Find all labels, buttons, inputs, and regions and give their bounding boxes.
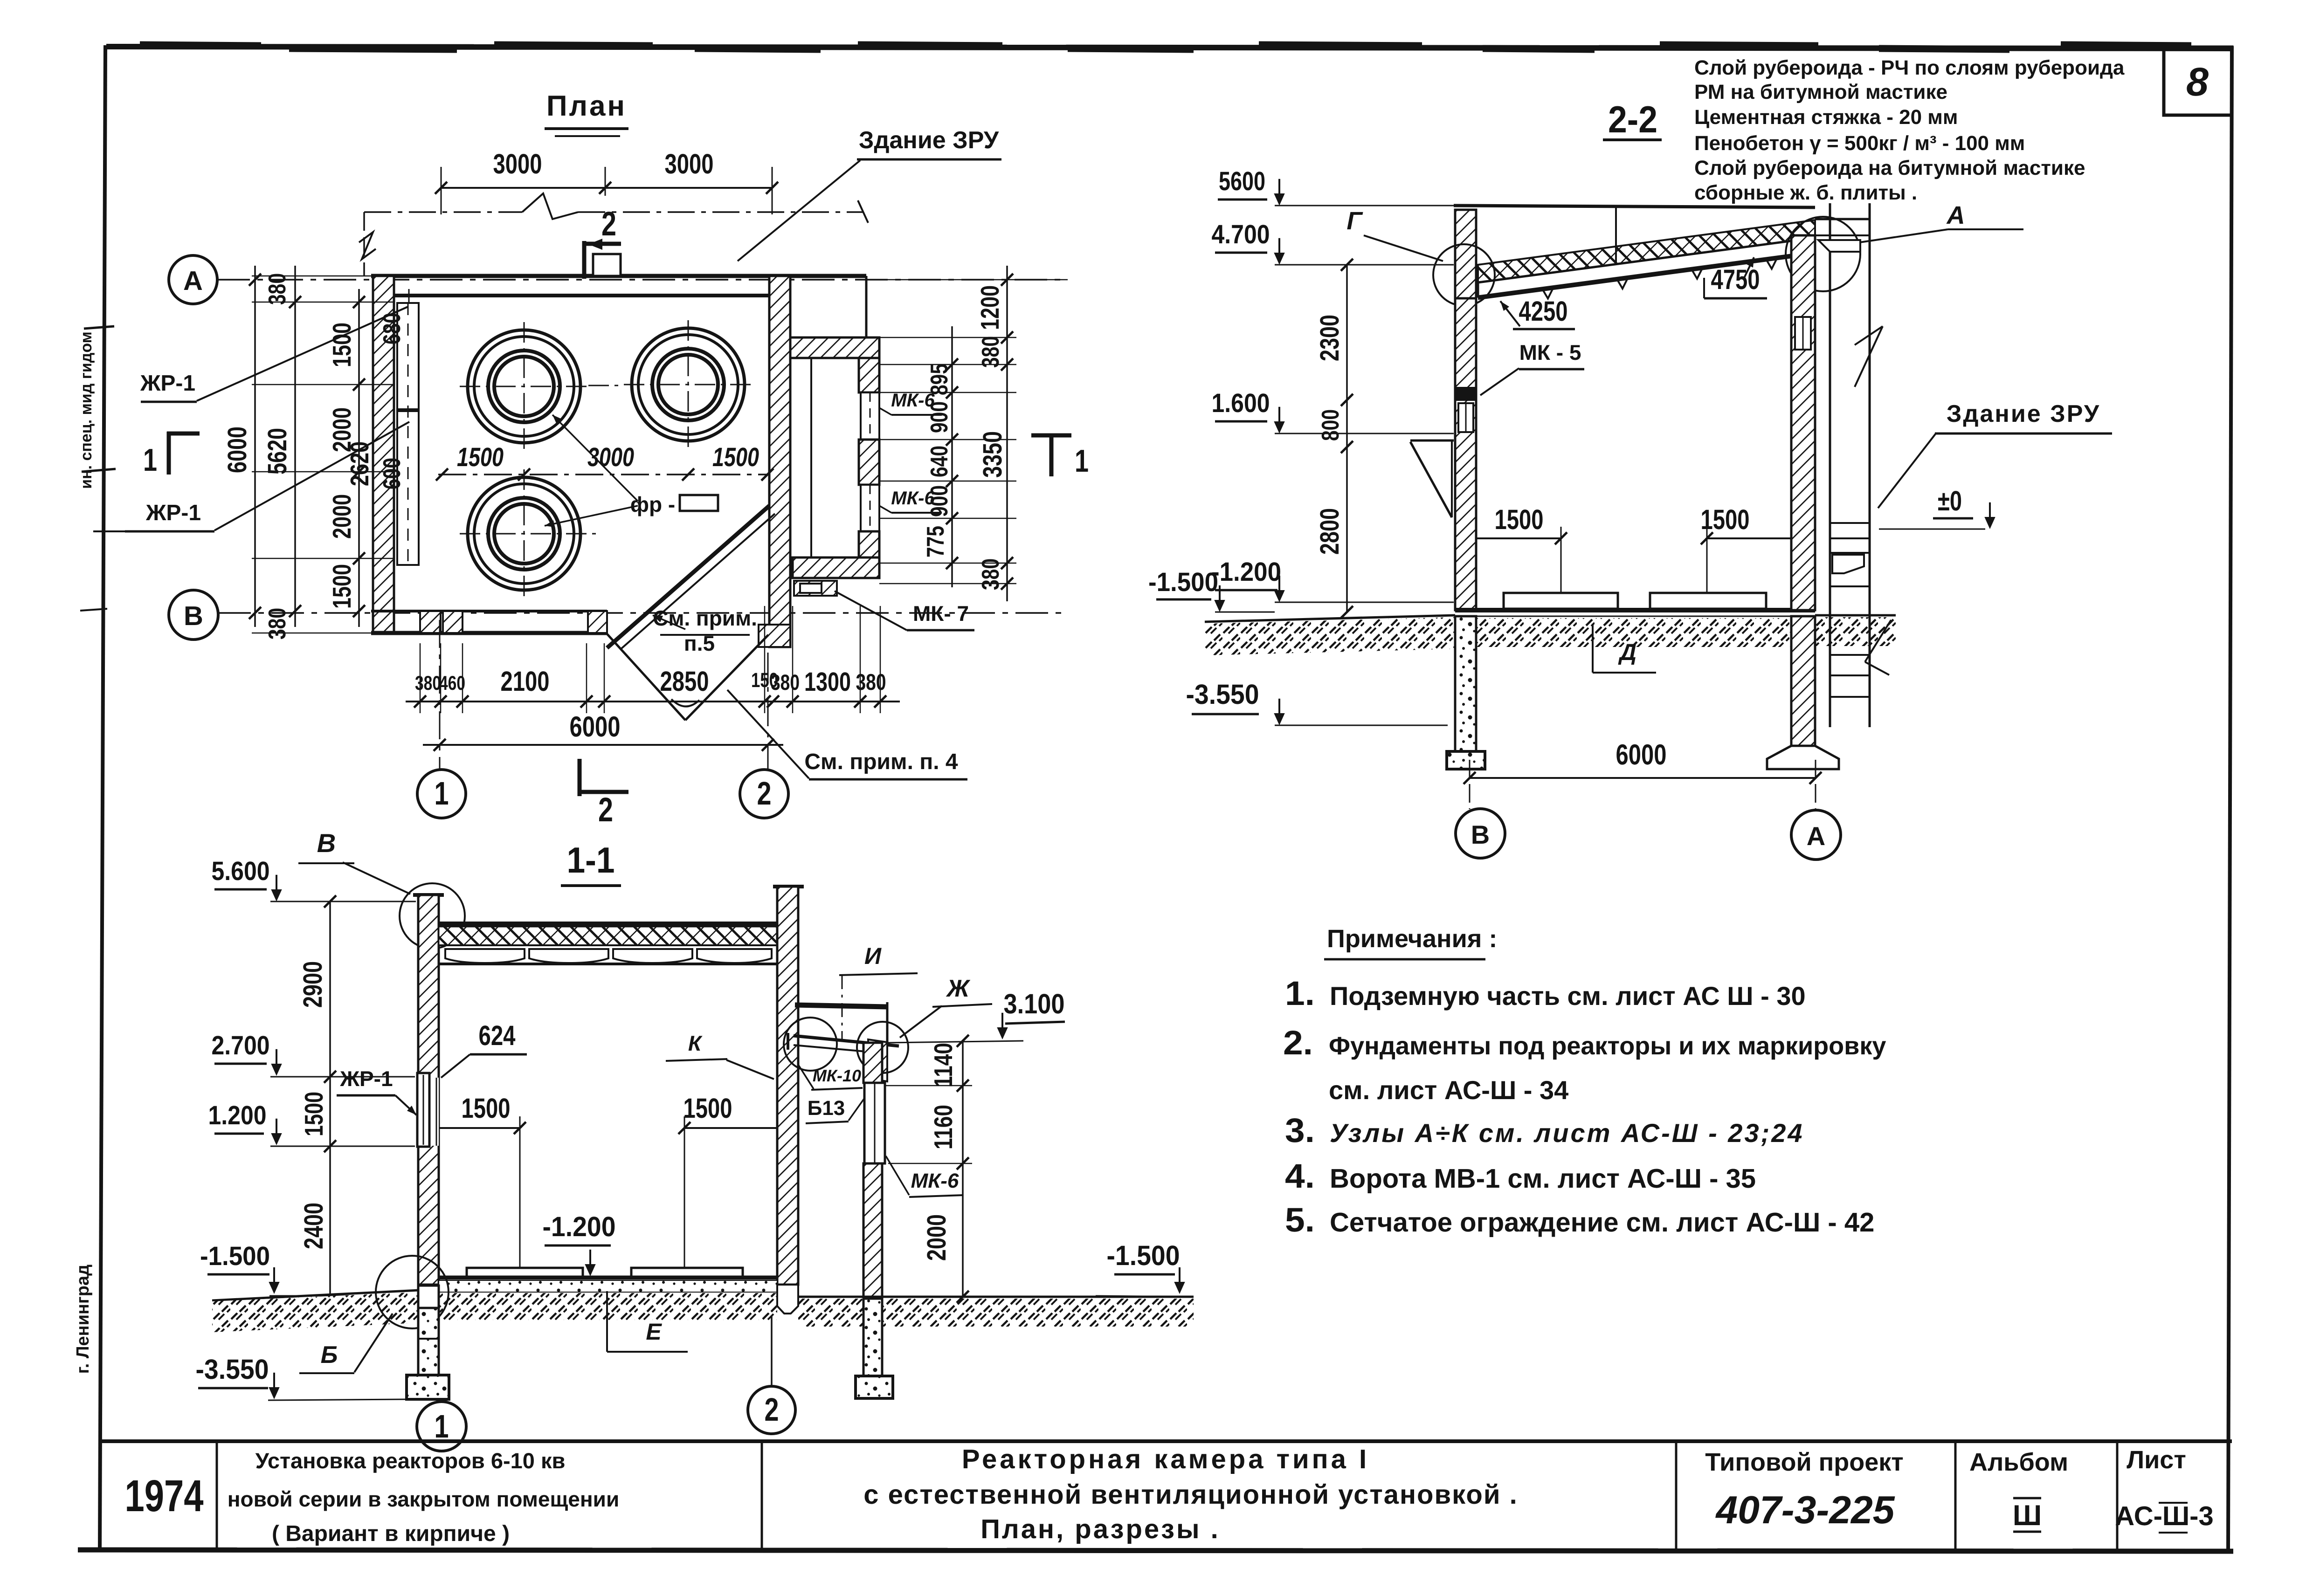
annex right wall lower [859, 531, 879, 557]
svg-text:МК- 7: МК- 7 [913, 601, 969, 626]
ground right (1-1) [798, 1296, 1194, 1298]
floor slab 2-2 [1455, 608, 1815, 612]
svg-text:РМ на битумной мастике: РМ на битумной мастике [1694, 81, 1947, 103]
svg-text:План: План [546, 90, 627, 122]
reactor R2 [632, 328, 745, 441]
svg-text:1.600: 1.600 [1212, 388, 1270, 418]
svg-text:624: 624 [479, 1020, 516, 1051]
section mark 2 (top) [582, 241, 587, 279]
building top wall [371, 274, 866, 278]
svg-text:Примечания :: Примечания : [1327, 925, 1497, 953]
axis circle 2 (plan) [740, 770, 788, 818]
svg-text:АС-Ш-3: АС-Ш-3 [2115, 1501, 2214, 1531]
section mark 2 (bottom) [578, 759, 582, 796]
annex sloped beam [794, 1036, 899, 1046]
annex column (1-1) [863, 1043, 882, 1083]
ZhR-1 louver blocks [397, 303, 419, 409]
svg-text:1500: 1500 [712, 442, 759, 472]
reactor pads (1-1) [467, 1268, 583, 1278]
svg-text:ЖР-1: ЖР-1 [339, 1066, 393, 1091]
svg-text:380: 380 [977, 336, 1004, 368]
ZRU lower slabs [1830, 654, 1870, 656]
left column below ground (1-1) [418, 1286, 439, 1308]
floor slab (1-1) [439, 1276, 777, 1280]
svg-text:1974: 1974 [125, 1471, 204, 1521]
svg-text:План, разрезы .: План, разрезы . [980, 1514, 1220, 1544]
svg-text:2300: 2300 [1315, 315, 1345, 361]
svg-text:Г: Г [1346, 207, 1363, 235]
svg-text:800: 800 [1317, 409, 1344, 441]
svg-text:640: 640 [926, 446, 953, 477]
axis circle A [169, 255, 217, 304]
section bump on top wall [593, 254, 621, 276]
svg-text:895: 895 [926, 364, 953, 395]
annex roof slab (1-1) [795, 1005, 887, 1007]
leader to circle 2 [771, 1315, 773, 1385]
svg-text:В: В [184, 601, 203, 631]
annex inner lines [810, 358, 812, 557]
left dim chain 1500/2000 [358, 289, 360, 627]
annex column below ground [863, 1299, 882, 1376]
svg-text:Ш: Ш [2013, 1500, 2042, 1532]
svg-text:А: А [1807, 821, 1825, 851]
detail circle A (roof right) [1786, 217, 1860, 291]
inner dim row 1500-3000-1500 [438, 474, 769, 475]
left column parapet [1455, 210, 1476, 298]
axis ref dash-dot line (top) [364, 211, 522, 213]
svg-text:3.100: 3.100 [1004, 988, 1065, 1019]
svg-text:2850: 2850 [660, 666, 709, 697]
svg-text:3.: 3. [1285, 1112, 1315, 1149]
reactor R3 [468, 477, 580, 590]
svg-text:900: 900 [926, 485, 953, 517]
ZRU wall (right) [1829, 203, 1831, 727]
svg-text:сборные ж. б. плиты .: сборные ж. б. плиты . [1694, 181, 1917, 204]
detail circle B (column base) [376, 1256, 449, 1328]
MK-7 element [794, 581, 837, 596]
svg-text:4750: 4750 [1711, 264, 1760, 295]
ground left 2-2 [1205, 615, 1455, 622]
right column joints [1795, 317, 1811, 350]
svg-text:-3.550: -3.550 [1186, 679, 1259, 710]
ground line left (1-1) [212, 1290, 418, 1300]
svg-text:4.700: 4.700 [1212, 220, 1270, 249]
louver on column (1-1) [418, 1078, 439, 1146]
annex top wall [790, 337, 879, 358]
vertical dim chain 2300/800/2800 [1346, 265, 1348, 612]
svg-text:4250: 4250 [1519, 296, 1568, 327]
extension lines left [252, 302, 394, 303]
axis circle B (2-2) [1456, 809, 1505, 858]
svg-text:2400: 2400 [299, 1203, 329, 1249]
detail circle MK-10 node [784, 1018, 837, 1071]
vertical dim chain 1-1 [329, 901, 331, 1305]
svg-text:1500: 1500 [327, 564, 356, 609]
big diagonal opening line [607, 506, 769, 648]
sheet border frame [106, 47, 2233, 48]
axis 1 vertical line [439, 620, 441, 769]
detail circle at column top [400, 883, 465, 949]
svg-text:Ж: Ж [946, 975, 971, 1002]
axis line B [218, 612, 1068, 614]
axis circle B (plan) [169, 590, 218, 640]
right wall hatched [769, 276, 790, 647]
break marks on ZRU wall [1855, 326, 1883, 345]
svg-text:Лист: Лист [2127, 1446, 2186, 1474]
right extension lines [879, 337, 1016, 338]
annex footing [856, 1376, 893, 1398]
svg-text:-1.500: -1.500 [1107, 1240, 1180, 1271]
leader to building [738, 160, 860, 261]
bottom dim chain [406, 701, 900, 702]
svg-text:1: 1 [1075, 443, 1089, 479]
right outer dim chain [1006, 266, 1008, 601]
svg-text:Здание ЗРУ: Здание ЗРУ [1947, 400, 2100, 427]
svg-text:( Вариант в кирпиче ): ( Вариант в кирпиче ) [272, 1521, 510, 1546]
break symbol [522, 193, 578, 219]
left dim chain 680/600 [408, 289, 410, 302]
svg-text:А: А [1946, 201, 1965, 229]
bottom wall [371, 610, 607, 612]
roof insulation sloped cross-hatch [1478, 220, 1815, 282]
triangle bracket on column [1410, 440, 1454, 442]
svg-text:Сетчатое ограждение см. лис: Сетчатое ограждение см. лист АС-Ш - 42 [1330, 1207, 1874, 1238]
svg-text:2: 2 [598, 791, 613, 829]
roof slab 1-1 : top line [439, 922, 777, 926]
left column 1-1 cap [413, 893, 444, 897]
svg-text:фр -: фр - [630, 492, 675, 516]
svg-text:В: В [317, 828, 336, 858]
svg-text:3350: 3350 [978, 431, 1008, 478]
svg-text:380: 380 [264, 608, 291, 640]
svg-text:3000: 3000 [493, 148, 542, 179]
svg-text:А: А [183, 266, 203, 296]
axis circle A (2-2) [1791, 810, 1841, 860]
ground inside room (1-1) [439, 1293, 777, 1320]
ground right 2-2 [1815, 614, 1896, 617]
svg-text:2: 2 [765, 1391, 779, 1428]
svg-text:1500: 1500 [1701, 504, 1750, 535]
svg-text:5620: 5620 [262, 428, 292, 475]
svg-text:Фундаменты под реакторы и: Фундаменты под реакторы и их маркировку [1329, 1032, 1886, 1060]
right column 2-2 [1791, 235, 1815, 610]
svg-text:380: 380 [415, 672, 441, 695]
svg-text:Слой рубероида на битумной: Слой рубероида на битумной мастике [1694, 157, 2085, 179]
svg-text:1300: 1300 [804, 667, 851, 697]
right column below ground [1791, 616, 1815, 746]
right inner dim chain [951, 326, 953, 587]
reactor R1 [468, 330, 580, 443]
left dim chain 6000 [254, 266, 256, 627]
svg-text:775: 775 [922, 526, 949, 557]
axis circle 1 (1-1) [417, 1402, 466, 1451]
bottom border [78, 1550, 2233, 1551]
annex bottom wall [793, 557, 879, 578]
svg-text:1200: 1200 [975, 285, 1004, 330]
svg-text:2100: 2100 [501, 666, 550, 697]
gate V doors [607, 634, 685, 720]
svg-text:2.700: 2.700 [212, 1031, 270, 1060]
svg-text:г. Ленинград: г. Ленинград [73, 1265, 93, 1374]
svg-text:Пенобетон γ = 500кг / м³ - 1: Пенобетон γ = 500кг / м³ - 100 мм [1694, 132, 2025, 155]
detail circle G [1433, 244, 1495, 306]
left border [100, 45, 105, 1551]
svg-text:См. прим.: См. прим. [653, 606, 757, 630]
left dim chain 5620 [294, 266, 296, 627]
svg-text:680: 680 [379, 313, 406, 344]
svg-text:-1.500: -1.500 [1148, 567, 1218, 597]
svg-text:Здание ЗРУ: Здание ЗРУ [859, 127, 999, 154]
left column 2-2 [1455, 298, 1476, 610]
svg-text:1500: 1500 [1495, 504, 1544, 535]
MK-5 black block [1455, 387, 1476, 401]
svg-text:В: В [1471, 820, 1490, 849]
reactor pads on floor (2-2) [1504, 593, 1618, 609]
svg-text:6000: 6000 [570, 711, 621, 743]
svg-text:Б: Б [321, 1341, 338, 1369]
annex louver 1 (MK-6) [861, 392, 879, 440]
svg-text:460: 460 [439, 672, 465, 695]
svg-text:2620: 2620 [345, 441, 374, 486]
svg-text:Слой рубероида - РЧ по слоям: Слой рубероида - РЧ по слоям рубероида [1694, 56, 2125, 79]
svg-text:6000: 6000 [1616, 739, 1667, 771]
svg-text:1500: 1500 [684, 1093, 732, 1124]
svg-text:1500: 1500 [462, 1093, 511, 1124]
axis circle 2 (1-1) [748, 1386, 795, 1434]
roof slab sloped [1478, 238, 1815, 296]
ground inside 2-2 [1476, 618, 1791, 647]
svg-text:с естественной вентиляционной: с естественной вентиляционной установкой… [863, 1479, 1518, 1510]
svg-text:Подземную часть см. лист АС: Подземную часть см. лист АС Ш - 30 [1330, 981, 1806, 1011]
svg-text:Узлы А÷К см. лист АС-Ш -: Узлы А÷К см. лист АС-Ш - 23;24 [1330, 1118, 1804, 1148]
svg-text:5.600: 5.600 [212, 856, 270, 886]
annex louver 2 (MK-6) [861, 485, 879, 531]
annex louver MK-6 (1-1) [864, 1083, 885, 1163]
right column base foot [777, 1285, 798, 1314]
svg-text:см. лист АС-Ш - 34: см. лист АС-Ш - 34 [1329, 1075, 1568, 1105]
svg-text:1500: 1500 [299, 1092, 328, 1136]
svg-text:МК-6: МК-6 [911, 1169, 959, 1192]
leader arrows from fr to reactors [552, 415, 638, 501]
svg-text:5.: 5. [1285, 1201, 1315, 1239]
axis line A [217, 279, 1068, 281]
svg-text:МК-10: МК-10 [813, 1066, 861, 1085]
svg-text:±0: ±0 [1938, 485, 1962, 516]
svg-text:600: 600 [379, 458, 406, 489]
svg-text:ЖР-1: ЖР-1 [140, 371, 195, 396]
svg-text:-1.500: -1.500 [200, 1241, 270, 1271]
svg-text:См. прим. п. 4: См. прим. п. 4 [804, 750, 958, 774]
right column 1-1 [777, 887, 798, 1285]
svg-text:407-3-225: 407-3-225 [1715, 1488, 1895, 1532]
axis 2 vertical line [767, 653, 769, 769]
svg-text:2000: 2000 [327, 494, 356, 539]
svg-text:5600: 5600 [1219, 166, 1265, 196]
svg-text:2000: 2000 [922, 1214, 952, 1261]
svg-text:К: К [688, 1031, 703, 1055]
svg-text:И: И [864, 943, 882, 969]
section mark 1 (left) [167, 432, 171, 475]
svg-text:2: 2 [601, 205, 616, 243]
left wall hatched [373, 276, 394, 633]
svg-text:1: 1 [435, 775, 449, 812]
svg-text:1.200: 1.200 [208, 1101, 267, 1130]
svg-text:380: 380 [771, 670, 800, 695]
svg-text:Альбом: Альбом [1969, 1448, 2068, 1476]
detail circle Zh node [857, 1022, 908, 1073]
svg-text:2800: 2800 [1315, 508, 1345, 555]
svg-text:Е: Е [646, 1319, 662, 1345]
left column 1-1 [418, 895, 439, 1285]
svg-text:6000: 6000 [222, 427, 252, 473]
svg-text:ин. спец. мид гидом: ин. спец. мид гидом [77, 331, 95, 489]
svg-text:3000: 3000 [665, 148, 714, 179]
svg-text:2: 2 [757, 775, 772, 812]
annex right wall mid [859, 440, 879, 485]
svg-text:2-2: 2-2 [1608, 99, 1657, 141]
svg-text:1160: 1160 [929, 1105, 958, 1149]
centerline between R1 R2 [588, 385, 624, 386]
svg-text:Ворота МВ-1 см. лист АС-Ш: Ворота МВ-1 см. лист АС-Ш - 35 [1330, 1163, 1756, 1194]
svg-text:380: 380 [264, 273, 291, 305]
svg-text:МК - 5: МК - 5 [1519, 340, 1581, 365]
right dim chain (1-1 annex) [962, 1041, 964, 1297]
svg-text:1-1: 1-1 [567, 839, 615, 881]
right column 1-1 cap [773, 885, 804, 888]
svg-text:-1.200: -1.200 [543, 1211, 616, 1242]
page number box [2164, 47, 2232, 115]
svg-text:1: 1 [143, 442, 157, 478]
svg-text:Установка реакторов 6-10 кв: Установка реакторов 6-10 кв [255, 1448, 566, 1473]
ZRU louvers mid [1830, 522, 1870, 524]
footing (axis 1) [407, 1375, 449, 1399]
roof insulation band [439, 927, 777, 945]
svg-text:4.: 4. [1285, 1157, 1315, 1195]
top horizontal line (5600 roof/parapet) [1454, 206, 1815, 207]
svg-text:1500: 1500 [457, 442, 504, 472]
svg-text:ЖР-1: ЖР-1 [145, 501, 201, 525]
svg-text:2.: 2. [1283, 1024, 1313, 1062]
title block grid [101, 1439, 2232, 1443]
svg-text:Б13: Б13 [808, 1097, 845, 1120]
roof beams at ZRU wall [1815, 218, 1870, 220]
svg-text:2900: 2900 [298, 961, 328, 1008]
left column below ground + footing [1455, 616, 1476, 751]
annex right wall upper [859, 358, 879, 392]
svg-text:900: 900 [926, 401, 953, 433]
svg-text:Цементная стяжка - 20 мм: Цементная стяжка - 20 мм [1694, 106, 1958, 129]
right border [2228, 46, 2232, 1551]
svg-text:Типовой проект: Типовой проект [1705, 1448, 1904, 1476]
svg-text:-3.550: -3.550 [196, 1354, 269, 1385]
svg-text:1.: 1. [1285, 975, 1315, 1012]
right footing trapezoid [1767, 746, 1839, 769]
svg-text:1140: 1140 [929, 1043, 958, 1087]
svg-text:8: 8 [2186, 60, 2209, 104]
drip ticks under slab [1543, 289, 1553, 298]
right wall lower part with foot [759, 625, 790, 647]
roof panels row [439, 944, 777, 946]
svg-text:Реакторная камера типа: Реакторная камера типа I [962, 1444, 1369, 1474]
roof slab joint line [1615, 208, 1617, 265]
section mark 1 (right) [1049, 433, 1054, 476]
svg-text:новой серии в закрытом пом: новой серии в закрытом помещении [228, 1487, 619, 1511]
svg-text:1500: 1500 [327, 323, 356, 367]
axis circle 1 (plan) [417, 770, 466, 818]
column joint details [1458, 403, 1473, 432]
bottom wall hatch piers [420, 611, 441, 633]
annex column lower part [863, 1163, 882, 1297]
svg-text:-1.200: -1.200 [1211, 557, 1281, 587]
svg-text:1: 1 [435, 1408, 449, 1445]
svg-text:Д: Д [1618, 639, 1636, 665]
